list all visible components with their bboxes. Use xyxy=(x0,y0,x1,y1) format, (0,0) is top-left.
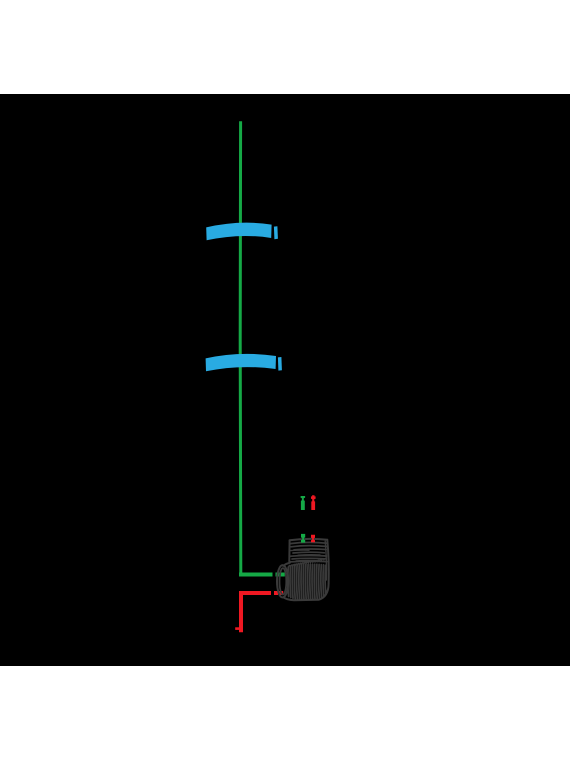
insulator 2 (blue curved band) xyxy=(206,354,276,371)
insulator 1 (blue curved band) xyxy=(206,223,271,241)
banana plug red (above coil) xyxy=(311,495,316,510)
wire: green vertical antenna radiator xyxy=(239,121,243,576)
outline: vertical barrel xyxy=(288,541,290,562)
green wire dash 1 xyxy=(276,573,280,577)
hook tops of coil turns xyxy=(289,558,327,567)
coil hatching on horizontal barrel (vertical turns) xyxy=(287,567,290,597)
terminal stud red (on coil top) xyxy=(311,535,315,543)
coil elbow body (hand-drawn grey pipe elbow) xyxy=(277,539,329,600)
green wire dash 2 (at elbow inlet) xyxy=(281,573,285,577)
thread hatching on vertical barrel xyxy=(291,546,328,547)
outline: horizontal barrel + rounded outer corner xyxy=(283,563,290,566)
end cap ellipse (left opening) xyxy=(277,565,288,597)
red wire end nub xyxy=(235,627,240,630)
canvas: black drawing area xyxy=(0,94,570,666)
terminal stud green (on coil top) xyxy=(301,534,305,543)
red wire dash 1 xyxy=(274,591,278,595)
red wire dash 2 (at elbow inlet) xyxy=(279,591,283,595)
banana plug green (above coil) xyxy=(301,496,306,510)
wire: red counterpoise (horizontal + vertical down) xyxy=(241,593,271,632)
insulator 2 end tab xyxy=(278,357,282,371)
wire: green horizontal feed segment xyxy=(239,573,273,577)
insulator 1 end tab xyxy=(274,226,278,239)
